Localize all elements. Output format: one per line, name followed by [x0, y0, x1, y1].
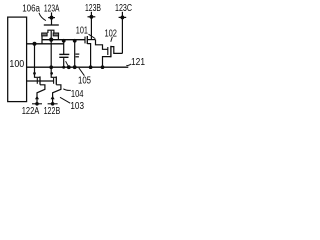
transistor 101 gate bar — [84, 37, 86, 44]
wire 102 source lead — [103, 57, 111, 68]
wire busC output line — [27, 66, 129, 68]
transistor 106a right foot pad — [53, 33, 58, 36]
wire right foot leg to busA — [57, 36, 59, 40]
leader 101 — [89, 34, 96, 38]
wire 123B vertical — [90, 12, 92, 40]
node 123C junction dot — [120, 15, 124, 19]
arrowhead 122A — [35, 96, 39, 100]
node 123B junction dot — [89, 15, 93, 19]
arrowhead 122B — [51, 96, 55, 100]
node dot busC at 68.8 — [67, 65, 71, 69]
svg-text:122A: 122A — [22, 106, 40, 117]
wire 123C vertical — [121, 12, 123, 54]
node dot busA at 106a — [49, 38, 53, 42]
node small dot on 104 drain — [50, 72, 53, 75]
svg-text:105: 105 — [78, 75, 91, 86]
transistor 104 gate bar — [53, 78, 55, 84]
wire 104 source lead — [53, 85, 61, 104]
transistor 104 channel bar — [55, 76, 57, 84]
terminal dot 122B — [51, 102, 55, 106]
wire 103 source lead — [37, 85, 45, 104]
node dot busA at cap stub — [62, 39, 66, 43]
transistor 106a left foot pad — [42, 33, 47, 36]
svg-text:106a: 106a — [22, 4, 40, 15]
wire gate lead from 100 to 103/104 gates — [27, 80, 54, 82]
leader 106a — [39, 13, 46, 21]
svg-text:102: 102 — [104, 28, 117, 39]
terminal 122B cross bar — [48, 103, 58, 105]
wire cap top stub — [63, 40, 65, 55]
transistor 106a gate bar — [44, 24, 59, 26]
node 123C cross bar — [119, 16, 127, 18]
svg-text:123C: 123C — [115, 3, 132, 14]
node dot busC at 63.7 — [62, 66, 65, 69]
wire left foot leg to busB — [41, 36, 43, 44]
node dot busA at x74.7 — [73, 39, 77, 43]
leader 121 — [126, 64, 131, 66]
terminal dot 122A — [35, 102, 39, 106]
svg-text:123B: 123B — [85, 3, 101, 14]
svg-text:123A: 123A — [44, 3, 60, 14]
node 123A junction dot — [50, 16, 54, 20]
node 123A cross bar — [48, 17, 55, 19]
node dot busB — [33, 42, 37, 46]
wire busA horizontal — [42, 39, 85, 41]
node dot busC at 51.2 — [49, 65, 53, 69]
transistor 102 gate bar — [107, 47, 109, 55]
wire 106a center lead down to busC — [50, 31, 52, 67]
capacitor 105 top plate — [59, 53, 69, 55]
node small dot on 103 drain — [33, 72, 36, 75]
leader 105 to cap — [66, 61, 69, 67]
svg-text:101: 101 — [76, 26, 89, 37]
transistor 103 channel bar — [39, 76, 41, 84]
transistor 101 channel bar — [86, 36, 88, 44]
wire 102 drain lead elbow to 123C — [111, 47, 123, 54]
wire busB horizontal from 100 — [27, 43, 64, 45]
wire 123A vertical — [51, 12, 53, 25]
leader 102 — [111, 37, 113, 42]
wire elbow 101 drain to 102 gate — [96, 40, 108, 50]
wire 106a node down to transistor 104 — [51, 67, 56, 77]
wire 101 source lead — [87, 44, 90, 68]
svg-text:104: 104 — [71, 89, 84, 100]
svg-text:122B: 122B — [44, 106, 61, 117]
wire 101 drain lead — [87, 39, 95, 41]
transistor 102 channel bar — [110, 46, 112, 58]
leader 105 from text — [79, 68, 85, 76]
svg-text:100: 100 — [9, 59, 24, 70]
block 100 rectangle — [8, 17, 27, 102]
wire busB node down to transistor 103 — [35, 44, 41, 78]
capacitor right top bar — [75, 53, 79, 55]
transistor 106a channel hat — [48, 30, 54, 33]
capacitor right bottom bar — [75, 56, 79, 58]
transistor 103 gate bar — [36, 78, 38, 84]
node dot busC at 74.7 — [73, 65, 77, 69]
capacitor 105 bottom plate — [59, 56, 68, 58]
svg-text:103: 103 — [70, 101, 84, 112]
wire cap bottom stub to busC — [63, 58, 65, 67]
terminal 122A cross bar — [32, 103, 42, 105]
node dot busC at 102.5 — [101, 65, 105, 69]
node 123B cross bar — [88, 16, 96, 18]
svg-text:121: 121 — [131, 57, 145, 68]
leader 104 — [63, 89, 71, 91]
node dot busC at 90.6 — [89, 65, 93, 69]
wire vertical x74.7 busA to busC — [74, 40, 76, 68]
leader 103 — [60, 97, 70, 103]
